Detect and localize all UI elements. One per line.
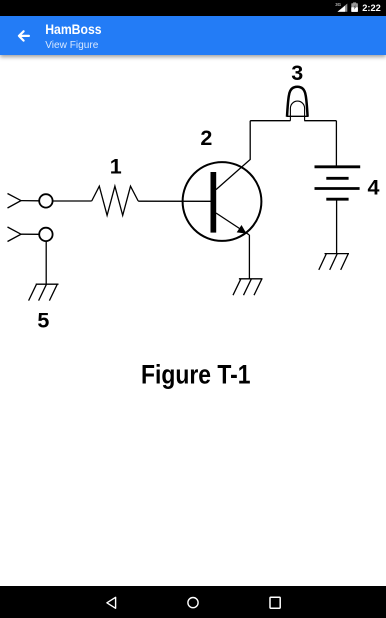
svg-text:5: 5 — [37, 309, 49, 333]
svg-text:HamBoss: HamBoss — [45, 22, 101, 37]
svg-text:3G: 3G — [335, 2, 341, 7]
svg-text:3: 3 — [291, 61, 303, 85]
svg-text:2: 2 — [200, 126, 212, 150]
svg-text:2:22: 2:22 — [362, 3, 381, 14]
svg-text:1: 1 — [110, 154, 122, 178]
svg-text:View Figure: View Figure — [45, 39, 98, 51]
svg-text:4: 4 — [368, 176, 380, 200]
svg-text:Figure T-1: Figure T-1 — [141, 360, 251, 390]
